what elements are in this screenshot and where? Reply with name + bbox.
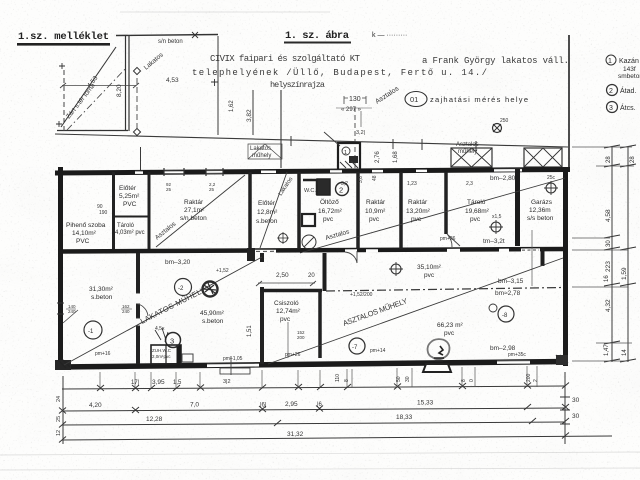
- svg-text:4,20: 4,20: [89, 402, 102, 409]
- svg-text:2,95: 2,95: [285, 401, 298, 408]
- room oltozo: [318, 198, 343, 223]
- svg-text:4,03m² pvc: 4,03m² pvc: [115, 230, 145, 236]
- circled 01 note: [405, 92, 528, 107]
- svg-text:0: 0: [469, 379, 475, 382]
- svg-text:pvc: pvc: [411, 216, 422, 223]
- svg-text:-1: -1: [88, 329, 94, 335]
- porch line: [140, 147, 142, 171]
- svg-text:Tároló: Tároló: [117, 223, 135, 229]
- svg-text:8,20: 8,20: [116, 84, 123, 97]
- svg-text:30: 30: [405, 376, 411, 382]
- dim 2,50: [256, 272, 316, 286]
- svg-text:bm–2,80: bm–2,80: [490, 175, 516, 182]
- svg-text:|6|: |6|: [260, 403, 267, 409]
- pavement ticks: [291, 136, 476, 151]
- svg-text:pvc: pvc: [470, 216, 481, 223]
- legend divider line: [568, 35, 570, 168]
- svg-text:3,2|: 3,2|: [356, 130, 365, 136]
- eloter diagonal: [260, 172, 287, 248]
- svg-text:Garázs: Garázs: [531, 199, 553, 206]
- svg-text:Átcs.: Átcs.: [620, 103, 636, 112]
- svg-text:10,9m²: 10,9m²: [365, 208, 386, 215]
- hatched circle 4: [428, 339, 450, 361]
- svg-text:5,25m²: 5,25m²: [119, 193, 140, 200]
- svg-text:12,8m²: 12,8m²: [257, 209, 278, 216]
- svg-text:16,72m²: 16,72m²: [318, 208, 343, 215]
- dim row 1: [62, 379, 569, 391]
- svg-text:pvc: pvc: [323, 216, 334, 223]
- lakatos muhely gate label: [248, 144, 282, 159]
- svg-text:a Frank György lakatos váll.: a Frank György lakatos váll.: [422, 56, 569, 66]
- svg-text:zajhatási mérés helye: zajhatási mérés helye: [430, 95, 528, 104]
- window raktar27 a: [164, 168, 184, 192]
- svg-text:14: 14: [622, 349, 628, 356]
- yard mark circle: [493, 118, 509, 133]
- title left: [17, 31, 110, 46]
- svg-text:1,47: 1,47: [604, 344, 610, 356]
- svg-text:240: 240: [122, 309, 130, 314]
- drain garaz: [544, 175, 558, 195]
- svg-text:3,95: 3,95: [152, 379, 165, 386]
- svg-text:25: 25: [209, 187, 215, 192]
- svg-text:31,32: 31,32: [287, 431, 304, 438]
- csiszolo top wall: [260, 289, 322, 293]
- svg-text:s/n beton: s/n beton: [158, 39, 183, 45]
- svg-text:4,32: 4,32: [605, 299, 612, 312]
- svg-text:2,0m¹pvc: 2,0m¹pvc: [152, 354, 171, 359]
- svg-text:-8: -8: [502, 313, 508, 319]
- svg-text:190: 190: [99, 210, 108, 216]
- bottom wall corner hatches: [55, 360, 71, 370]
- drain tarolo: [489, 214, 503, 234]
- svg-text:30: 30: [606, 240, 612, 247]
- svg-text:110: 110: [335, 374, 341, 382]
- svg-text:Raktár: Raktár: [408, 199, 428, 206]
- svg-text:1,68: 1,68: [393, 151, 399, 163]
- svg-text:+1,52: +1,52: [216, 268, 229, 274]
- svg-text:3,2: 3,2: [341, 181, 348, 187]
- yard east line: [217, 36, 219, 135]
- flag line x355 dashed: [354, 107, 356, 170]
- room eloter 12.8: [256, 200, 278, 225]
- lower wall x262: [260, 253, 264, 364]
- svg-text:01: 01: [410, 95, 418, 104]
- svg-text:1,62: 1,62: [229, 100, 235, 112]
- svg-text:pm+16: pm+16: [95, 351, 111, 357]
- room raktar 13.2: [406, 199, 431, 223]
- svg-text:s.beton: s.beton: [91, 294, 113, 301]
- courtyard diagonal 2 dashed: [67, 67, 127, 130]
- svg-text:1: 1: [344, 150, 347, 156]
- garage wall x517: [515, 169, 520, 246]
- lower wall x138: [136, 253, 148, 364]
- right exterior wall: [563, 167, 568, 366]
- svg-text:-7: -7: [352, 345, 358, 351]
- svg-text:pvc: pvc: [369, 216, 380, 223]
- svg-text:48: 48: [372, 175, 378, 181]
- svg-text:31,30m²: 31,30m²: [89, 286, 114, 293]
- bottom exterior wall: [58, 356, 568, 375]
- gate X box right: [524, 148, 562, 167]
- svg-text:s.beton: s.beton: [202, 318, 224, 325]
- room eloter 5.25: [119, 185, 140, 208]
- room 35.10: [417, 264, 442, 279]
- courtyard diagonal 1: [61, 47, 116, 127]
- title center: [284, 30, 407, 44]
- svg-text:pm+14: pm+14: [370, 348, 386, 354]
- svg-text:ZUH.W.C: ZUH.W.C: [152, 348, 172, 353]
- svg-text:Öltöző: Öltöző: [320, 198, 339, 206]
- right dim vertical 30/30: [560, 372, 580, 444]
- asztalos muhely gate label: [456, 142, 479, 155]
- svg-text:1,51: 1,51: [247, 325, 253, 337]
- drain 35room: [389, 262, 403, 276]
- svg-text:3,8: 3,8: [358, 176, 364, 183]
- svg-text:Raktár: Raktár: [184, 199, 204, 206]
- fixture box right of wc: [182, 354, 193, 362]
- svg-text:2: 2: [533, 379, 539, 382]
- step platform under wall: [220, 368, 250, 374]
- courtyard plus ticks: [56, 63, 218, 127]
- marks above wc: [155, 328, 168, 342]
- legend item 1: [606, 55, 640, 80]
- svg-text:Átad.: Átad.: [620, 86, 636, 95]
- svg-text:1,59: 1,59: [621, 267, 628, 280]
- room tarolo 19.68: [465, 199, 490, 223]
- svg-text:pm–1,05: pm–1,05: [223, 356, 243, 362]
- room 66.23: [437, 322, 463, 337]
- circle mark -7: [349, 338, 365, 354]
- top exterior wall: [55, 169, 570, 173]
- svg-text:|6: |6: [317, 402, 323, 408]
- svg-text:28: 28: [606, 156, 612, 163]
- room csiszolo: [274, 300, 301, 323]
- diagonal middle band right: [300, 178, 565, 253]
- svg-text:pvc: pvc: [444, 330, 455, 337]
- svg-text:PVC: PVC: [123, 201, 137, 208]
- svg-text:25: 25: [166, 187, 172, 192]
- svg-text:s.beton: s.beton: [256, 218, 278, 225]
- svg-text:Tároló: Tároló: [467, 199, 486, 206]
- kazan structure box: [338, 143, 360, 170]
- svg-text:3: 3: [170, 337, 174, 346]
- svg-text:12,28: 12,28: [146, 416, 163, 423]
- svg-text:12: 12: [56, 430, 62, 436]
- svg-text:223: 223: [605, 261, 612, 272]
- wc partition in oltozo: [303, 179, 330, 195]
- interior wall x299: [297, 172, 301, 249]
- csiszolo right wall: [318, 289, 322, 358]
- dim row 3: [59, 414, 569, 428]
- svg-text:pm+26: pm+26: [285, 352, 301, 358]
- svg-text:smbeton: smbeton: [618, 73, 640, 80]
- svg-text:Előtér: Előtér: [258, 200, 276, 207]
- room 31.30: [89, 286, 114, 301]
- right extension lines: [572, 147, 634, 361]
- courtyard west dashed boundary: [63, 70, 65, 131]
- svg-text:bm–2,98: bm–2,98: [490, 345, 516, 352]
- svg-text:7,0: 7,0: [190, 402, 199, 409]
- interior wall x252: [248, 172, 252, 249]
- room 45.90: [200, 310, 225, 325]
- boundary line x281: [280, 90, 282, 168]
- room garazs: [527, 199, 554, 222]
- svg-text:1,23: 1,23: [407, 181, 417, 187]
- wc block: [151, 345, 181, 366]
- svg-text:20: 20: [308, 273, 315, 279]
- door step block bottom: [423, 364, 451, 372]
- small rotated dims under wall: [335, 373, 539, 382]
- svg-text:18,33: 18,33: [396, 414, 413, 421]
- svg-text:19,68m²: 19,68m²: [465, 208, 490, 215]
- diagonal from kazan: [324, 132, 340, 146]
- circle mark 8: [489, 304, 514, 322]
- legend item 3: [607, 102, 636, 113]
- svg-text:250: 250: [500, 118, 509, 124]
- svg-text:25c: 25c: [547, 175, 556, 181]
- svg-text:12,74m²: 12,74m²: [276, 308, 301, 315]
- svg-text:Csiszoló: Csiszoló: [274, 300, 299, 307]
- left exterior wall: [58, 167, 63, 368]
- svg-text:W.C.: W.C.: [304, 188, 316, 194]
- legend item 2: [607, 85, 637, 96]
- svg-text:27,1m²: 27,1m²: [184, 207, 205, 214]
- svg-text:240: 240: [68, 309, 76, 314]
- hatched circle mark: [203, 282, 218, 297]
- diagonal lakatos: [64, 257, 262, 365]
- circle mark -2: [175, 279, 192, 296]
- svg-text:4,58: 4,58: [605, 209, 612, 222]
- door circle oltozo: [302, 235, 316, 249]
- svg-text:2,76: 2,76: [375, 151, 381, 163]
- svg-text:3,82: 3,82: [246, 109, 253, 122]
- middle band wall: [58, 230, 568, 286]
- svg-text:Pihenő szoba: Pihenő szoba: [66, 222, 106, 229]
- svg-text:24: 24: [56, 396, 62, 402]
- room raktar 10.9: [365, 199, 386, 223]
- svg-text:4,53: 4,53: [166, 77, 179, 84]
- interior wall x149: [148, 172, 151, 249]
- svg-text:bm≈2,78: bm≈2,78: [495, 290, 521, 297]
- svg-text:Asztalos: Asztalos: [456, 142, 479, 148]
- svg-text:16: 16: [604, 275, 610, 282]
- divider eloter/tarolo: [115, 216, 148, 218]
- dim row 2: [59, 400, 569, 414]
- svg-text:PVC: PVC: [76, 238, 90, 245]
- svg-text:35,10m²: 35,10m²: [417, 264, 442, 271]
- svg-text:30: 30: [572, 397, 580, 404]
- svg-text:műhely: műhely: [252, 153, 271, 159]
- svg-text:130: 130: [349, 96, 361, 103]
- svg-text:tm–3,2t: tm–3,2t: [483, 238, 505, 245]
- svg-text:3: 3: [609, 105, 613, 112]
- gate X box left: [451, 148, 492, 167]
- svg-text:200: 200: [297, 335, 305, 340]
- dim 152/200: [287, 322, 289, 358]
- svg-text:bm–3,15: bm–3,15: [498, 278, 524, 285]
- dashdot band divider 35/66: [326, 288, 563, 292]
- dim line courtyard: [60, 83, 139, 88]
- svg-text:143f: 143f: [623, 66, 636, 73]
- window raktar27 b: [206, 168, 223, 192]
- svg-text:2: 2: [609, 88, 613, 95]
- svg-text:66,23 m²: 66,23 m²: [437, 322, 463, 329]
- site north boundary line: [116, 32, 218, 45]
- drain eloter128: [277, 232, 289, 244]
- svg-text:3|2: 3|2: [223, 379, 231, 385]
- svg-text:+1,52/200: +1,52/200: [350, 292, 373, 298]
- room piheno szoba: [66, 222, 106, 245]
- svg-text:s/s beton: s/s beton: [527, 215, 554, 222]
- courtyard inner double wall vertical: [126, 36, 130, 131]
- svg-text:x1,5: x1,5: [492, 214, 502, 220]
- svg-text:13,20m²: 13,20m²: [406, 208, 431, 215]
- wall x324 upper part: [323, 253, 327, 291]
- svg-text:1. sz. ábra: 1. sz. ábra: [285, 30, 350, 42]
- svg-text:Kazán: Kazán: [619, 58, 639, 65]
- diagonal raktar27: [156, 175, 245, 247]
- svg-text:pvc: pvc: [424, 272, 435, 279]
- interior wall x113: [112, 172, 115, 249]
- fence dashed line with diamonds: [133, 67, 140, 135]
- svg-text:-2: -2: [178, 286, 184, 292]
- svg-text:1.sz. melléklet: 1.sz. melléklet: [18, 31, 109, 43]
- scale note 130: [336, 96, 372, 136]
- interior wall x358: [356, 172, 360, 249]
- interior wall x401: [399, 172, 403, 249]
- svg-text:pm+26: pm+26: [440, 236, 456, 242]
- svg-text:s/n.beton: s/n.beton: [180, 215, 207, 222]
- svg-text:1: 1: [608, 58, 612, 65]
- left dim vertical: [56, 376, 63, 444]
- courtyard south line: [57, 130, 128, 132]
- svg-text:helyszínrajza: helyszínrajza: [270, 80, 325, 90]
- svg-text:bm–3,20: bm–3,20: [165, 259, 191, 266]
- svg-text:28: 28: [630, 156, 636, 163]
- svg-text:14,10m²: 14,10m²: [72, 230, 97, 237]
- svg-text:2,3: 2,3: [466, 181, 473, 187]
- room raktar 27: [180, 199, 207, 222]
- circled 2: [336, 183, 349, 196]
- pavement edge line skewed: [55, 134, 568, 147]
- svg-text:telephelyének /Üllő, Budapest,: telephelyének /Üllő, Budapest, Fertő u. …: [192, 67, 487, 78]
- svg-text:45,90m²: 45,90m²: [200, 310, 225, 317]
- svg-text:pm+35c: pm+35c: [508, 352, 526, 358]
- svg-text:4,5x: 4,5x: [155, 326, 165, 332]
- svg-text:30: 30: [572, 413, 580, 420]
- svg-text:pvc: pvc: [280, 316, 291, 323]
- circle mark room31: [84, 321, 102, 339]
- svg-text:CIVIX faipari és szolgáltató K: CIVIX faipari és szolgáltató KT: [210, 54, 361, 64]
- room tarolo 4.03: [115, 223, 145, 236]
- svg-text:25: 25: [56, 416, 62, 422]
- closet box oltozo: [302, 214, 315, 226]
- dim row 4: [59, 431, 612, 443]
- svg-text:k — ·········: k — ·········: [372, 32, 407, 39]
- diagonal asztalos lower: [268, 258, 563, 364]
- svg-text:1,5: 1,5: [173, 380, 182, 386]
- svg-text:12,36m: 12,36m: [529, 207, 551, 214]
- tarolo door swing: [447, 234, 460, 247]
- svg-text:2,50: 2,50: [276, 272, 289, 279]
- interior wall x446: [444, 172, 448, 234]
- svg-text:Raktár: Raktár: [366, 199, 386, 206]
- svg-text:Előtér: Előtér: [119, 185, 137, 192]
- left wall window + door: [57, 303, 132, 323]
- svg-text:15,33: 15,33: [417, 400, 434, 407]
- extension lines bottom: [100, 366, 537, 388]
- circled 3: [166, 333, 181, 348]
- yard line x253: [229, 90, 253, 135]
